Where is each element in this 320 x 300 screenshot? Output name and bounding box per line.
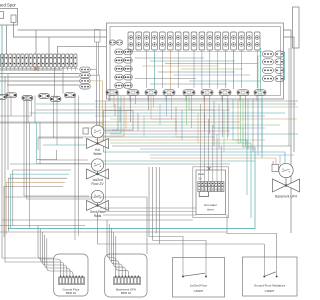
CM907B box — [243, 257, 298, 296]
svg-text:Floor ZV: Floor ZV — [91, 182, 104, 186]
svg-text:BDR 91: BDR 91 — [66, 291, 77, 295]
wire spur earth teal — [1, 25, 3, 104]
wire mm loop — [104, 111, 134, 153]
wire valve1 feed 1 — [90, 70, 97, 126]
cable clamp C8 — [237, 90, 249, 96]
wire valve3 feed 1 — [24, 96, 89, 197]
wire long y225 — [0, 225, 85, 227]
wire right margin — [288, 48, 290, 146]
wire long y220 — [2, 219, 193, 221]
wire long y244 — [98, 243, 265, 245]
cable clamp C2 — [127, 90, 139, 96]
hot water timer box — [196, 170, 226, 215]
wiring centre internal links — [135, 57, 204, 59]
valve basement UFH — [285, 178, 287, 186]
wire nested loops into BDR1 — [38, 226, 61, 277]
svg-text:timer: timer — [207, 208, 214, 212]
wire bdr2 right riser — [146, 197, 148, 254]
wire valve1 feed 2 — [90, 75, 100, 126]
wiring centre internal drops — [130, 50, 132, 88]
wire stair inbox 2 — [151, 96, 198, 137]
wire drops right of centre — [227, 99, 229, 137]
wiring centre cable entry — [95, 30, 101, 43]
timer terminal numbered row — [198, 187, 201, 192]
wire live feed top — [18, 30, 292, 233]
wire y123 — [0, 122, 103, 124]
cable clamp C3 — [145, 90, 157, 96]
wire left vert 1 — [1, 104, 3, 258]
wire long y232 — [0, 231, 227, 233]
wire feed y46 — [58, 45, 107, 47]
svg-text:Hot water: Hot water — [204, 203, 217, 207]
svg-text:BDR 91: BDR 91 — [121, 291, 132, 295]
box top right — [293, 7, 300, 48]
wiring centre aux pair — [109, 40, 116, 45]
svg-text:N: N — [198, 188, 200, 192]
wire left vert 3 — [7, 74, 9, 170]
svg-text:Heat: Heat — [198, 172, 205, 176]
wire into BDR1 left — [2, 257, 54, 259]
wire valve3 down — [97, 212, 99, 245]
wire stair right 3 — [243, 146, 255, 148]
timer feed drops — [199, 104, 201, 182]
wire valve1 left feed b — [43, 138, 88, 145]
cable clamp L6 — [65, 93, 76, 98]
wire staircase left — [13, 170, 71, 226]
wire band low 2 — [100, 211, 196, 213]
wire stair right 1 — [233, 140, 247, 195]
wire neutral feed top — [14, 23, 295, 153]
wiring centre terminal row — [128, 32, 134, 50]
junction X red timer — [207, 167, 211, 171]
wire band low 1 — [100, 207, 196, 209]
cable clamp L2 — [6, 93, 17, 98]
wire bus y81 — [0, 80, 80, 82]
cable clamp L5 — [50, 97, 61, 102]
wire bus y85 — [7, 84, 80, 86]
wiring centre internal drops coloured — [154, 50, 156, 89]
wire drop to strip b — [48, 37, 50, 54]
wire valve2 feed 1 — [40, 160, 88, 164]
BDR1 box — [54, 254, 88, 296]
wire valve1 links — [104, 92, 118, 130]
svg-text:Rads: Rads — [94, 214, 102, 218]
wire band low 3 — [103, 214, 196, 216]
cable clamp C7 — [219, 90, 231, 96]
wire bus y70 — [0, 69, 62, 71]
wire valve1 left feed a — [38, 138, 83, 150]
svg-text:Water: Water — [93, 152, 102, 156]
junction X red — [34, 66, 39, 71]
svg-text:1st/2nd Floor: 1st/2nd Floor — [190, 283, 208, 287]
cable clamp C1 — [106, 90, 118, 96]
cable clamp C5 — [183, 90, 195, 96]
fused spur box — [0, 9, 18, 26]
wire teal right loop — [282, 52, 285, 80]
cable clamp L3 — [22, 96, 33, 101]
wire mm short verticals — [114, 104, 116, 116]
wire green right hook — [258, 56, 262, 92]
cable clamp L1 — [0, 95, 7, 100]
terminal pairs right column — [263, 51, 274, 57]
wire cm907b feed 2 — [155, 167, 157, 234]
timer terminal top row — [198, 182, 201, 187]
BDR1 terminal strip — [59, 277, 85, 285]
cable clamp C4 — [163, 90, 175, 96]
valve ZV3 Grnd Floor Rads — [97, 203, 99, 206]
wire basement valve feeds — [284, 152, 286, 164]
CM907A switch — [182, 276, 184, 278]
cable clamp C9 — [254, 90, 266, 96]
timer outer box — [193, 167, 229, 218]
wire teal mid vert — [105, 101, 107, 212]
wire valve1 feed 3 — [90, 81, 103, 128]
svg-text:Basement UFH: Basement UFH — [275, 195, 297, 199]
fused spur switch — [0, 12, 4, 19]
CM907A box — [173, 258, 225, 298]
valve ZV1 Hot Water — [97, 138, 99, 144]
terminal pairs left column — [115, 49, 124, 55]
wiring centre outer box — [107, 23, 284, 99]
wire clamp vert a — [54, 67, 56, 96]
wire left vert teal pair — [29, 122, 31, 229]
CM907B switch — [263, 276, 265, 278]
wire teal bus y228 — [8, 147, 255, 229]
svg-text:CM907: CM907 — [265, 289, 275, 293]
wire drop to strip a — [35, 30, 37, 54]
wire stair inbox 1 — [189, 96, 243, 148]
wire long y197 — [5, 196, 147, 198]
wire y116 — [0, 115, 32, 117]
wire spur drop grey — [6, 25, 8, 54]
wire cm907a feed 1 — [149, 167, 183, 258]
strip rail — [0, 67, 78, 69]
wire cm907a feed 2 — [153, 167, 206, 258]
wire y159 corner — [37, 150, 57, 160]
wire teal right col — [260, 48, 262, 92]
wire strip drops — [1, 67, 3, 71]
wire y244 feed — [159, 167, 161, 244]
wire bus y77 — [0, 76, 80, 78]
terminal strip main — [1, 54, 4, 67]
wire valve3 feed 2 — [27, 96, 91, 200]
timer link wire — [199, 192, 208, 197]
wire clamp tails — [27, 96, 29, 124]
valve ZV1 side box — [83, 128, 88, 134]
terminal pairs valve column — [80, 67, 91, 72]
BDR2 box — [105, 254, 147, 297]
BDR2 terminal strip — [114, 277, 141, 285]
wire cm907b feed — [227, 215, 277, 258]
wire clamp vert b — [62, 67, 64, 94]
svg-text:Ground Floor Radiators: Ground Floor Radiators — [254, 283, 286, 287]
wire stair right 2 — [238, 143, 251, 218]
cable clamp C6 — [201, 90, 213, 96]
wire entry tails — [96, 42, 98, 70]
wire clamp drops — [130, 96, 132, 122]
cable clamp L4 — [39, 94, 50, 99]
svg-text:Fused Spur: Fused Spur — [0, 3, 16, 8]
row rail — [128, 51, 262, 53]
wire nested loops into BDR2 — [107, 220, 116, 277]
fused spur fuse — [11, 15, 16, 23]
wire valve2 feed 2 — [37, 122, 90, 164]
valve ZV2 Floor ZV — [97, 171, 99, 174]
svg-text:CM907: CM907 — [194, 289, 204, 293]
wire bus y73 — [0, 73, 80, 75]
wiring centre inner box — [110, 27, 281, 96]
valve basement side box — [272, 165, 279, 172]
wire band horizontal runs — [95, 100, 298, 102]
wire left vert 2 — [5, 76, 54, 262]
